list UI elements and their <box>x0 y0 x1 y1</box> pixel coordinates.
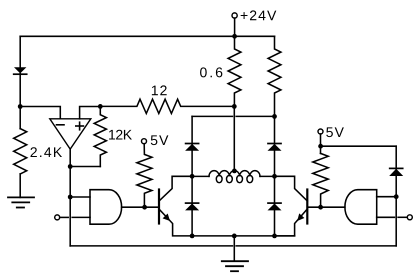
wire 5V branch to right riser <box>321 145 397 147</box>
resistor R5 12 (horizontal) <box>100 99 234 113</box>
wire +24V terminal to rail <box>234 18 236 36</box>
label +24V <box>241 10 277 20</box>
label 5V (left) <box>151 135 169 145</box>
wire 5V right terminal down <box>320 134 322 153</box>
diode D2 (bridge top-left, pointing up) <box>185 144 199 151</box>
junction center tap <box>232 169 237 174</box>
junction bridge bottom center <box>232 234 237 239</box>
resistor R2 <box>268 36 281 116</box>
node 5V terminal (right) <box>318 129 323 134</box>
wire right vertical riser <box>395 146 397 246</box>
label 12K <box>109 130 132 140</box>
resistor R3 2.4K <box>14 129 27 174</box>
junction at +24V rail <box>232 34 237 39</box>
junction feedback/output <box>68 164 73 169</box>
resistor R6 (left 5V pull-up) <box>137 144 152 208</box>
wire feedback to output <box>70 166 100 168</box>
node 5V terminal (left) <box>142 139 147 144</box>
resistor R4 12K (feedback) <box>94 106 106 166</box>
label 2.4K <box>31 147 63 157</box>
label 12 <box>152 85 167 95</box>
diode D4 (bridge top-right, pointing up) <box>268 144 282 151</box>
wire center tap vertical <box>233 106 235 171</box>
junction bridge mid-left <box>190 174 195 179</box>
junction node A (diode/2.4K/op-amp inv) <box>18 104 23 109</box>
junction gate1 output / 5V resistor <box>142 205 147 210</box>
wire top horizontal rail <box>20 35 274 37</box>
diode D3 (bridge bottom-left, pointing up) <box>185 203 199 210</box>
wire bottom rail (with jump gaps) <box>70 245 232 247</box>
label 0.6 <box>200 67 222 77</box>
ground (left) <box>8 197 34 207</box>
node +24V terminal <box>232 13 237 18</box>
wire non-inverting input <box>80 107 101 119</box>
junction 5V right branch <box>318 144 323 149</box>
junction bridge bottom-right <box>272 234 277 239</box>
op-amp U1 <box>50 119 91 149</box>
wire ground stem <box>233 236 235 261</box>
wire bridge top (jumps center tap) <box>192 115 232 117</box>
junction bridge top right <box>272 114 277 119</box>
junction node B (+in / 12K / 12) <box>98 104 103 109</box>
inductor L1 <box>192 171 274 183</box>
wire op-amp output vertical <box>69 149 71 246</box>
gate G2 (right AND, mirrored) <box>307 190 412 225</box>
wire bridge right vertical <box>274 116 276 235</box>
junction gate2 output / 5V resistor <box>318 205 323 210</box>
label 5V (right) <box>326 127 344 137</box>
wire 2.4K to ground <box>19 174 21 197</box>
ground (center) <box>222 261 248 271</box>
transistor Q1 (left NPN) <box>159 176 192 236</box>
wire left vertical from rail <box>19 36 21 67</box>
junction gate1 top input <box>68 195 73 200</box>
junction node C (0.6 bottom / 12 right) <box>232 104 237 109</box>
wire inverting input <box>20 107 60 119</box>
wire bridge left vertical <box>191 116 193 235</box>
junction bridge bottom-left <box>190 234 195 239</box>
resistor R7 (right 5V pull-up) <box>313 153 328 207</box>
junction bridge mid-right <box>272 174 277 179</box>
diode D6 (right, pointing up) <box>389 168 403 176</box>
gate G1 (left AND) <box>55 190 159 225</box>
transistor Q2 (right NPN, mirrored) <box>275 176 308 236</box>
resistor R1 0.6 <box>228 36 241 106</box>
diode D1 (left, cathode down) <box>14 67 27 128</box>
diode D5 (bridge bottom-right, pointing up) <box>268 203 282 210</box>
junction gate2 top input <box>394 194 399 199</box>
wire bridge bottom <box>192 235 295 237</box>
